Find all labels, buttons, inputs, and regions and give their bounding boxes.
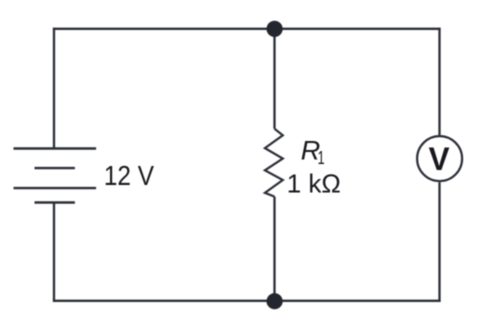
wire middle vertical lower xyxy=(273,197,275,301)
wire middle vertical upper xyxy=(273,29,275,129)
voltmeter V xyxy=(417,136,462,181)
wire right vertical upper xyxy=(438,28,440,136)
battery B1 12 V xyxy=(14,149,97,203)
wire left vertical lower xyxy=(53,203,55,302)
node junction top xyxy=(267,21,283,37)
svg-text:1 kΩ: 1 kΩ xyxy=(287,168,341,198)
wire top horizontal xyxy=(53,28,441,30)
resistor R1 xyxy=(265,129,283,197)
svg-text:V: V xyxy=(429,141,450,177)
wire right vertical lower xyxy=(438,182,440,302)
svg-text:1: 1 xyxy=(318,147,325,168)
wire bottom horizontal xyxy=(53,300,441,302)
node junction bottom xyxy=(267,293,283,309)
wire left vertical upper xyxy=(53,28,55,149)
svg-text:12 V: 12 V xyxy=(104,160,155,191)
